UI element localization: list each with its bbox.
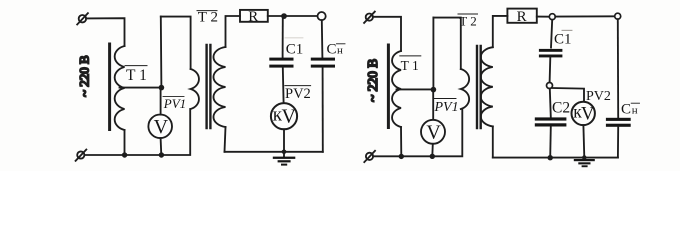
resistor R right xyxy=(507,9,536,25)
transformer T2 secondary winding right xyxy=(481,47,493,126)
label PV1 right xyxy=(434,99,459,115)
transformer T1 winding right xyxy=(392,51,401,127)
svg-text:T 2: T 2 xyxy=(459,14,476,29)
capacitor Cn right xyxy=(606,118,631,127)
wire T2 secondary bottom xyxy=(225,127,226,152)
svg-text:V: V xyxy=(426,122,441,144)
svg-text:T 2: T 2 xyxy=(198,9,218,25)
transformer T2 core right xyxy=(477,46,481,128)
capacitor C1 left xyxy=(269,58,293,68)
junction PV1-rail right xyxy=(430,154,435,159)
wire T2 secondary bottom right xyxy=(492,126,494,157)
wire Cn terminal down xyxy=(321,20,324,57)
kilovoltmeter PV2 right xyxy=(572,102,596,126)
junction kV-rail left xyxy=(282,150,287,155)
wire C1 to divider node xyxy=(549,57,552,82)
wire tap T1 to PV1 riser xyxy=(120,87,162,89)
terminal input top-right circuit xyxy=(364,12,375,23)
wire C2 to rail xyxy=(549,127,552,158)
svg-text:~ 220 В: ~ 220 В xyxy=(77,55,92,97)
transformer T1 core right xyxy=(387,45,390,128)
label T2 xyxy=(197,9,218,25)
svg-text:C2: C2 xyxy=(552,100,570,117)
wire bottom rail secondary right xyxy=(493,157,618,159)
node HV open circle right xyxy=(549,14,555,20)
resistor R left xyxy=(240,9,268,25)
wire R to node xyxy=(268,15,318,17)
junction C2-rail xyxy=(548,155,553,160)
svg-text:C: C xyxy=(327,42,337,58)
label Cn left xyxy=(327,42,346,58)
wire R to node right xyxy=(537,16,550,18)
label T1 right xyxy=(400,56,421,73)
svg-text:C1: C1 xyxy=(286,42,304,58)
label C1 right xyxy=(554,30,572,47)
wire T2 primary bottom xyxy=(189,109,191,130)
voltmeter PV1 right xyxy=(421,120,445,144)
label PV2 left xyxy=(285,86,311,102)
wire bottom rail primary left xyxy=(84,109,190,155)
svg-text:R: R xyxy=(517,9,527,25)
wire top rail primary to T2 right xyxy=(433,18,460,69)
junction tap node xyxy=(159,85,165,91)
terminal input bottom-right circuit xyxy=(364,151,375,162)
svg-text:T 1: T 1 xyxy=(126,67,147,84)
voltmeter PV1 xyxy=(148,115,172,139)
label Cn right xyxy=(621,102,640,118)
node divider open circle xyxy=(547,83,553,89)
transformer T2 core xyxy=(207,45,211,128)
transformer T1 winding xyxy=(115,46,125,130)
junction PV1-rail xyxy=(159,152,164,157)
capacitor Cn left xyxy=(311,58,335,68)
wire far terminal down to Cn right xyxy=(617,19,619,118)
wire bottom rail secondary left xyxy=(225,151,323,153)
wire T1 bottom xyxy=(124,130,126,155)
wire node to C1 xyxy=(282,16,284,57)
wire T2 secondary top to R right xyxy=(493,16,508,47)
wire top rail primary to T2 xyxy=(161,17,191,69)
junction HV node xyxy=(281,13,287,19)
wire tap T1 to PV1 right xyxy=(397,88,434,90)
wire PV2 to rail xyxy=(283,129,285,152)
wire Cn to rail xyxy=(322,68,324,152)
capacitor C2 xyxy=(535,117,567,126)
junction kV-rail right xyxy=(582,155,587,160)
label C1 left xyxy=(285,38,303,58)
svg-text:V: V xyxy=(282,106,297,128)
terminal HV open xyxy=(318,12,326,20)
terminal far-right open xyxy=(615,13,621,19)
svg-text:V: V xyxy=(154,116,169,138)
wire tap node down to voltmeter xyxy=(160,88,162,115)
svg-text:V: V xyxy=(581,105,595,125)
label T2 right xyxy=(458,14,478,29)
wire node to far terminal right xyxy=(555,15,614,17)
wire top input xyxy=(86,18,124,46)
transformer T2 primary winding xyxy=(191,69,199,109)
svg-text:н: н xyxy=(337,45,343,57)
kilovoltmeter PV2 left xyxy=(271,103,297,129)
junction tap node right xyxy=(431,87,437,93)
capacitor C1 right xyxy=(539,49,563,58)
svg-text:C: C xyxy=(621,102,631,118)
svg-text:PV1: PV1 xyxy=(163,96,186,111)
wire divider node to PV2 xyxy=(553,88,585,102)
wire top input right xyxy=(373,17,401,51)
wire C1 to PV2 xyxy=(282,68,285,104)
wire voltmeter to rail right xyxy=(431,144,434,157)
wire PV2 to rail right xyxy=(582,125,585,158)
svg-text:R: R xyxy=(248,9,258,25)
wire node to C1 right xyxy=(551,20,552,48)
wire T1 bottom right xyxy=(400,127,402,156)
transformer T2 primary winding right xyxy=(461,69,469,109)
junction T1-rail right xyxy=(399,154,404,159)
ground left xyxy=(273,152,296,166)
svg-text:PV1: PV1 xyxy=(434,100,459,115)
wire riser tap to top rail right xyxy=(432,18,434,90)
svg-text:н: н xyxy=(632,105,638,117)
transformer T1 core xyxy=(108,44,111,130)
junction T1-rail xyxy=(122,152,127,157)
wire Cn to rail right xyxy=(617,127,619,158)
svg-text:C1: C1 xyxy=(554,32,572,48)
wire T2 secondary top to R xyxy=(226,16,241,47)
wire riser tap to top rail xyxy=(160,17,163,88)
wire voltmeter to rail xyxy=(160,138,163,155)
svg-text:~ 220 В: ~ 220 В xyxy=(365,59,380,102)
ground right xyxy=(574,159,595,167)
label PV1 xyxy=(163,96,186,111)
transformer T2 secondary winding xyxy=(213,47,225,127)
wire bottom rail primary right xyxy=(373,109,462,156)
terminal input bottom-left xyxy=(76,150,87,161)
svg-text:T 1: T 1 xyxy=(401,58,419,73)
svg-text:PV2: PV2 xyxy=(586,89,611,104)
terminal input top-left xyxy=(77,13,88,24)
wire divider node to C2 xyxy=(550,89,551,118)
label T1 xyxy=(125,66,147,85)
svg-text:PV2: PV2 xyxy=(285,86,311,102)
wire tap node down to voltmeter right xyxy=(432,90,434,120)
